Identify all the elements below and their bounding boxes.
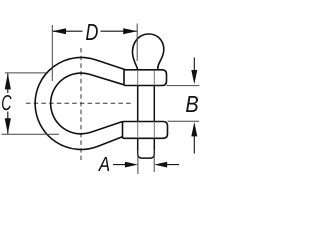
dimension B top arrow line (193, 57, 195, 70)
centerline vertical through bow center (80, 48, 82, 160)
dimension C up arrowhead (5, 73, 11, 89)
dimension D right arrowhead (123, 28, 137, 34)
pin shaft hidden through top ear (138, 70, 155, 85)
dimension A right arrowhead (154, 162, 167, 168)
dimension A left extension line (137, 150, 139, 174)
dimension B top extension line (167, 85, 200, 87)
dimension A left line (113, 164, 126, 166)
pin tip below bottom ear (138, 138, 155, 158)
dimension D left extension line (51, 25, 53, 81)
top ear (124, 70, 167, 86)
pin knob head (132, 34, 163, 70)
label C (2, 95, 12, 110)
dimension B top arrowhead (191, 70, 197, 84)
label B (186, 96, 198, 112)
pin shaft hidden through bottom ear (138, 122, 155, 139)
pin shaft visible between ears (138, 86, 155, 122)
dimension D right extension line (136, 24, 138, 62)
dimension B bottom arrow line (193, 136, 195, 154)
shackle bow outer outline (35, 57, 125, 149)
dimension C down arrowhead (5, 118, 11, 134)
dimension C line (7, 73, 9, 133)
dimension A right line (167, 164, 179, 166)
dimension D left arrowhead (52, 28, 66, 34)
dimension A right extension line (153, 150, 155, 172)
dimension C bottom extension line (2, 133, 60, 135)
bottom ear (123, 122, 168, 139)
centerline horizontal through bow center (26, 102, 132, 104)
shackle bow inner outline (51, 73, 124, 134)
dimension D line (52, 30, 137, 32)
dimension C top extension line (5, 72, 46, 74)
label D (86, 24, 98, 40)
label A (98, 157, 109, 171)
dimension A left arrowhead (125, 162, 138, 168)
dimension B bottom extension line (168, 120, 200, 122)
dimension B bottom arrowhead (191, 122, 197, 136)
